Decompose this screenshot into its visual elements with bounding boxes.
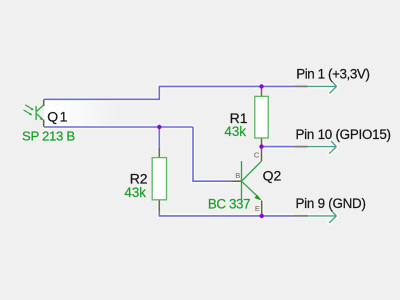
junction dot node D (emitter/GND) (260, 214, 264, 218)
svg-text:Q2: Q2 (263, 168, 282, 184)
svg-text:R2: R2 (130, 171, 148, 187)
pin arrow Pin 10 (308, 141, 336, 154)
grey lead-in Pin 9 (294, 215, 308, 217)
svg-text:Pin 10 (GPIO15): Pin 10 (GPIO15) (296, 127, 391, 142)
wire: collector node to Pin 10 (262, 146, 295, 148)
resistor R1 pins (261, 86, 263, 161)
label box Q1 (44, 100, 120, 126)
wire: junction down to R2 (158, 127, 160, 147)
phototransistor Q1 (24, 99, 44, 127)
svg-text:B: B (235, 171, 240, 180)
resistor R2 (152, 158, 166, 200)
grey lead-in Pin 1 (294, 85, 308, 87)
grey lead-in Pin 10 (294, 146, 308, 148)
svg-text:43k: 43k (124, 185, 146, 200)
junction dot node C (collector) (259, 144, 263, 148)
svg-text:BC 337: BC 337 (208, 197, 250, 212)
svg-text:SP 213 B: SP 213 B (22, 129, 75, 144)
junction dot node B (R1 top) (259, 84, 263, 88)
pin arrow Pin 9 (308, 210, 336, 223)
svg-text:E: E (255, 204, 260, 213)
wire: Q1 emitter horizontal (44, 126, 193, 128)
transistor Q2 (232, 161, 262, 216)
svg-text:Pin 9 (GND): Pin 9 (GND) (296, 196, 366, 211)
halo layer for wires (44, 81, 337, 223)
wire: GND rail (159, 211, 294, 216)
wire: Q1 collector to +3.3V net (44, 86, 294, 99)
pin arrow Pin 1 (308, 81, 336, 94)
svg-text:C: C (254, 151, 260, 160)
svg-text:43k: 43k (224, 124, 246, 139)
resistor R2 pins (158, 147, 160, 211)
wire: to Q2 base (193, 127, 232, 181)
svg-text:Q1: Q1 (47, 109, 69, 125)
svg-text:Pin 1 (+3,3V): Pin 1 (+3,3V) (296, 66, 369, 81)
resistor R1 (255, 96, 268, 138)
junction dot node A (157, 125, 161, 129)
